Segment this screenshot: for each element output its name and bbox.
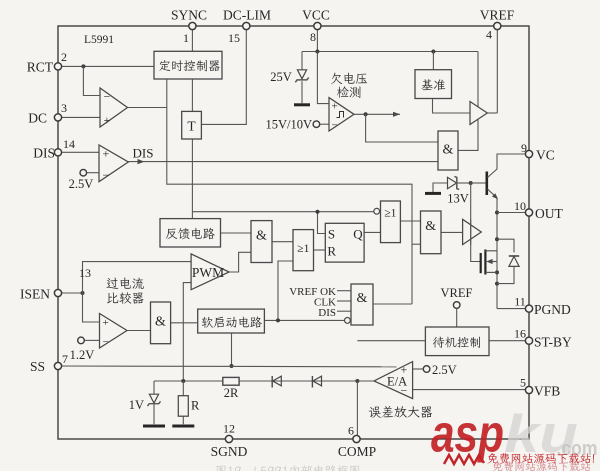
pin label ISEN [20, 287, 50, 302]
wire VCC pin8 down [316, 26, 318, 52]
node pin15 DC-LIM [243, 22, 250, 29]
svg-text:&: & [357, 291, 368, 306]
junction OUT node [495, 211, 499, 215]
pin number 12 [223, 422, 235, 436]
svg-text:−: − [332, 120, 338, 132]
label A5 [357, 291, 368, 306]
node pin4 VREF [494, 22, 501, 29]
svg-text:&: & [425, 219, 436, 234]
svg-text:2.5V: 2.5V [69, 177, 94, 191]
svg-text:+: + [103, 147, 110, 161]
pin number 8 [310, 30, 316, 44]
svg-text:DIS: DIS [33, 146, 55, 161]
latch U2 SR [325, 223, 364, 262]
svg-text:5: 5 [520, 376, 526, 390]
svg-text:+: + [104, 113, 111, 127]
svg-text:−: − [104, 90, 111, 104]
junction VCC above reference [431, 50, 435, 54]
op-amp U15 error amplifier EA [374, 362, 413, 399]
block U7 standby control [425, 327, 489, 356]
wire VCC rail [302, 51, 478, 53]
svg-text:T: T [187, 119, 196, 134]
label CLK [314, 297, 336, 309]
block U6 softstart circuit [198, 309, 265, 333]
node pin3 DC [54, 114, 61, 121]
wire reference block to buffer input [433, 99, 471, 114]
svg-text:ISEN: ISEN [20, 287, 50, 302]
junction S rail [316, 210, 320, 214]
wire ISEN pin13 line [58, 292, 83, 294]
wire VCC rail into reference block [432, 52, 434, 70]
junction RCT line [81, 64, 85, 68]
svg-text:≥1: ≥1 [384, 208, 396, 220]
node 15V/10V terminal [313, 121, 320, 128]
node pin6 COMP [353, 435, 360, 442]
node pin8 VCC [314, 22, 321, 29]
wire ISEN rail up to PWM input [83, 262, 192, 293]
pin label DIS [33, 146, 55, 161]
svg-text:E/A: E/A [387, 375, 407, 389]
pin label SYNC [171, 8, 207, 23]
gate O1 OR [293, 230, 314, 271]
junction driver node [469, 181, 473, 185]
svg-text:13: 13 [79, 266, 91, 280]
svg-text:≥1: ≥1 [297, 243, 309, 255]
label A3 [443, 143, 454, 158]
svg-text:11: 11 [514, 295, 526, 309]
transistor Q1 collector [488, 154, 530, 178]
svg-text:15V/10V: 15V/10V [265, 118, 312, 132]
transistor Q1 npn base bar [485, 172, 488, 196]
wire DIS label stub [337, 310, 351, 312]
zener D3 25V [295, 70, 308, 83]
svg-text:8: 8 [310, 30, 316, 44]
pin number 5 [520, 376, 526, 390]
label 2.5V at DIS [69, 177, 94, 191]
zener D4 1V [148, 394, 161, 406]
wire EA apex node to COMP pin6 [356, 381, 358, 439]
node pin7 SS [54, 362, 61, 369]
svg-text:R: R [191, 399, 200, 413]
block U3 timing controller [154, 51, 222, 79]
label O1 [297, 243, 309, 255]
label 2.5V at EA [432, 363, 457, 377]
resistor R [178, 396, 188, 417]
op-amp U9 DIS comparator [99, 145, 128, 182]
node pin5 VFB [525, 386, 532, 393]
svg-text:10: 10 [514, 199, 526, 213]
label A4 [155, 315, 166, 330]
pin label RCT [27, 60, 54, 75]
wire PWM output to AND [229, 252, 251, 272]
label softstart circuit [202, 316, 262, 327]
wire softstart output rail [264, 319, 344, 321]
svg-text:1.2V: 1.2V [70, 348, 95, 362]
wire RCT pin2 to timing controller [58, 65, 154, 67]
svg-text:2.5V: 2.5V [432, 363, 457, 377]
wire 25V zener top [301, 52, 303, 70]
gate A5 standby AND with bubble [345, 284, 374, 325]
block T [182, 111, 202, 139]
caption bottom [217, 465, 360, 471]
block U4 reference [415, 70, 452, 99]
wire VCC rail down to buffer top [477, 52, 479, 107]
junction diode top [495, 237, 499, 241]
wire latch Q to NOR gate [364, 231, 380, 233]
op-amp U8 RCT comparator [100, 88, 128, 127]
wire DIS signal rail [128, 161, 438, 163]
pin number 13 [79, 266, 91, 280]
label overcurrent line1 [107, 278, 144, 289]
wire to PGND pin11 [497, 308, 529, 310]
pin label SGND [211, 444, 248, 459]
ground bar at 1V zener [143, 425, 165, 428]
pin label DC-LIM [223, 8, 271, 23]
label A2 [425, 219, 436, 234]
label L5991 [84, 34, 114, 46]
zener D2 13V [448, 176, 460, 189]
label overcurrent line2 [107, 292, 144, 303]
svg-text:&: & [155, 315, 166, 330]
label 2R [224, 386, 239, 400]
node pin13 ISEN [54, 289, 61, 296]
wire compensation rail with diodes [154, 380, 357, 382]
pin number 4 [486, 28, 492, 42]
node pin2 RCT [54, 63, 61, 70]
wire clock rail [167, 79, 412, 304]
wire RCT comparator output to clock rail [128, 107, 167, 109]
svg-text:+: + [103, 317, 109, 329]
svg-text:DIS: DIS [318, 307, 336, 319]
label VREF terminal [441, 286, 473, 300]
pin label VREF [480, 8, 515, 23]
junction diode bottom [495, 282, 499, 286]
svg-text:DC-LIM: DC-LIM [223, 8, 271, 23]
wire DIS pin14 to comparator plus input [58, 151, 99, 153]
wire 1V zener to ground [153, 404, 155, 425]
wire DC pin3 to comparator plus input [58, 116, 100, 118]
node VREF terminal [453, 302, 460, 309]
wire VREFOK label stub [337, 290, 351, 292]
junction UVLO output [364, 112, 368, 116]
wire overcurrent comparator to AND [127, 330, 151, 332]
wire driver node to transistor base [471, 182, 486, 184]
svg-text:14: 14 [63, 137, 75, 151]
svg-text:S: S [328, 226, 335, 241]
wire UVLO output with arrow [354, 113, 400, 115]
svg-text:PGND: PGND [534, 302, 571, 317]
wire EA minus input to VFB pin5 [413, 389, 529, 391]
pin number 9 [521, 141, 527, 155]
pin label VC [536, 148, 555, 163]
wire R resistor to ground [182, 416, 184, 424]
svg-text:Q: Q [353, 226, 363, 241]
gate A3 uvlo AND [438, 131, 458, 170]
label 15V/10V [265, 118, 312, 132]
svg-text:OUT: OUT [535, 206, 563, 221]
wire buffer output to VREF pin4 drop [487, 112, 497, 114]
label reference [421, 79, 445, 90]
pin number 6 [348, 424, 354, 438]
node pin14 DIS [54, 149, 61, 156]
label standby control [433, 337, 480, 348]
wire 15V/10V terminal to UVLO minus input [320, 123, 329, 125]
transistor Q1 emitter with arrow [488, 189, 499, 199]
wire output AND to driver [441, 231, 463, 233]
svg-text:VC: VC [536, 148, 555, 163]
wire emitter down to PGND corner [496, 198, 498, 309]
svg-text:ST-BY: ST-BY [534, 335, 572, 350]
arrow on DIS rail [138, 159, 145, 164]
wire 2.5V terminal to DIS comparator minus input [87, 172, 100, 174]
svg-text:7: 7 [62, 352, 68, 366]
op-amp U10 UVLO comparator with hysteresis [329, 98, 354, 132]
wire feedback box to AND [221, 232, 252, 234]
label DIS signal [133, 146, 154, 161]
wire standby control to ST-BY pin16 [489, 340, 529, 342]
pin number 15 [228, 31, 240, 45]
arrow on UVLO output [393, 112, 400, 117]
wire AND to softstart box [171, 322, 198, 324]
svg-text:VREF: VREF [480, 8, 515, 23]
svg-text:15: 15 [228, 31, 240, 45]
wire VREF terminal to standby control [456, 308, 458, 327]
wire VCC to UVLO comparator plus input [317, 52, 329, 104]
IC boundary box [58, 26, 529, 439]
pin label VFB [534, 384, 560, 399]
diode D1 freewheeling [497, 239, 519, 283]
svg-text:+: + [332, 101, 338, 113]
resistor 2R [223, 377, 239, 385]
svg-text:3: 3 [61, 101, 67, 115]
label O2 [384, 208, 396, 220]
wire EA plus input to 2.5V terminal [413, 368, 424, 370]
wire EA node up to standby control [357, 340, 425, 342]
pin number 2 [61, 50, 67, 64]
svg-text:&: & [443, 143, 454, 158]
watermark red ghost [493, 461, 591, 471]
wire T block down to feedback box [191, 139, 193, 219]
svg-text:9: 9 [521, 141, 527, 155]
wire AND gate to buffer enable [458, 119, 478, 150]
svg-text:L5991: L5991 [84, 34, 114, 46]
pin number 7 [62, 352, 68, 366]
watermark aspku logo [431, 405, 598, 465]
pin number 16 [514, 327, 526, 341]
label VREF OK [289, 286, 336, 298]
node 1.2V terminal [78, 337, 85, 344]
pin label PGND [534, 302, 571, 317]
svg-text:2: 2 [61, 50, 67, 64]
node pin10 OUT [525, 209, 532, 216]
node pin11 PGND [525, 305, 532, 312]
diode D6 [312, 376, 321, 388]
gate A4 overcurrent AND [151, 302, 171, 344]
label S [328, 226, 335, 241]
wire softstart rail to OR gate second input [278, 261, 293, 320]
svg-text:4: 4 [486, 28, 492, 42]
wire DC-LIM pin15 down to T block [201, 26, 246, 124]
pin number 3 [61, 101, 67, 115]
wire 13V zener to driver node [457, 182, 471, 184]
svg-text:VCC: VCC [302, 8, 330, 23]
wire OR gate to latch R input [314, 249, 326, 251]
label DIS input [318, 307, 336, 319]
svg-text:−: − [103, 168, 110, 182]
wire timing controller to T block [191, 79, 193, 111]
wire 1V zener top [153, 381, 155, 394]
label 25V [270, 70, 292, 84]
junction divider node [181, 379, 185, 383]
label A1 [256, 229, 267, 244]
svg-text:PWM: PWM [192, 265, 224, 280]
pin label DC [28, 111, 47, 126]
svg-text:VFB: VFB [534, 384, 560, 399]
node pin9 VC [525, 150, 532, 157]
ground bar at 13V zener [425, 192, 441, 195]
op-amp U14 driver buffer [463, 219, 482, 244]
node 2.5V terminal at EA [423, 366, 430, 373]
label 1.2V [70, 348, 95, 362]
svg-text:SGND: SGND [211, 444, 248, 459]
transistor M1 mosfet [481, 250, 497, 275]
gate A2 output AND [421, 211, 442, 254]
wire 13V zener anode to ground [433, 183, 448, 192]
label 1V [129, 398, 144, 412]
block U5 feedback circuit [160, 219, 221, 247]
wire RCT branch to comparator minus input [83, 66, 100, 95]
svg-text:.com: .com [557, 438, 598, 460]
junction ISEN [81, 291, 85, 295]
svg-text:13V: 13V [447, 192, 469, 206]
svg-text:25V: 25V [270, 70, 292, 84]
diode D5 [272, 376, 281, 388]
svg-text:VREF: VREF [441, 286, 473, 300]
junction SS line [230, 364, 234, 368]
svg-text:SYNC: SYNC [171, 8, 207, 23]
gate A1 AND [251, 221, 272, 263]
wire standby AND output to clock rail [373, 303, 412, 305]
svg-text:1V: 1V [129, 398, 144, 412]
pin label ST-BY [534, 335, 572, 350]
svg-text:DC: DC [28, 111, 47, 126]
wire SYNC pin1 to timing controller [191, 26, 193, 51]
svg-text:12: 12 [223, 422, 235, 436]
svg-text:&: & [256, 229, 267, 244]
junction EA apex node [355, 379, 359, 383]
junction softstart rail [276, 318, 280, 322]
label error amplifier [369, 406, 432, 418]
pin label OUT [535, 206, 563, 221]
wire 1.2V terminal to overcurrent comparator minus [84, 339, 99, 341]
pin label COMP [338, 444, 376, 459]
svg-text:2R: 2R [224, 386, 239, 400]
pin number 11 [514, 295, 526, 309]
wire S rail branch to latch S input [318, 212, 326, 234]
wire ISEN down to overcurrent comparator plus [83, 293, 100, 322]
wire PWM second input down to divider node [183, 283, 191, 381]
pin number 10 [514, 199, 526, 213]
wire UVLO output down to AND gate [366, 114, 438, 142]
svg-text:16: 16 [514, 327, 526, 341]
wire CLK label stub [337, 300, 351, 302]
label feedback circuit [166, 228, 215, 239]
svg-text:DIS: DIS [133, 146, 154, 161]
wire AND to OR gate [272, 241, 293, 243]
watermark red zigzag [444, 455, 484, 464]
label R [191, 399, 200, 413]
wire clock rail stub to output AND gate [412, 243, 421, 245]
svg-text:SS: SS [30, 359, 45, 374]
svg-text:RCT: RCT [27, 60, 54, 75]
wire S rail to NOR bubble [192, 211, 373, 213]
gate O2 NOR with bubble [374, 201, 401, 243]
svg-text:1: 1 [183, 31, 189, 45]
watermark red text [488, 453, 594, 464]
label T [187, 119, 196, 134]
label R [327, 243, 336, 258]
svg-text:−: − [103, 336, 109, 348]
svg-text:6: 6 [348, 424, 354, 438]
wire R resistor top [182, 381, 184, 396]
node pin16 ST-BY [525, 337, 532, 344]
label uvlo detect line1 [331, 73, 367, 84]
junction VCC at pin8 drop [315, 50, 319, 54]
wire softstart box down to SS line [231, 333, 233, 366]
label timing controller [159, 60, 219, 71]
label PWM [192, 265, 224, 280]
label 13V [447, 192, 469, 206]
wire EA apex line [357, 380, 374, 382]
op-amp U13 overcurrent comparator [100, 314, 128, 349]
node pin12 SGND [225, 435, 232, 442]
ground bar at R [172, 425, 194, 428]
wire 25V zener to ground [301, 81, 303, 103]
op-amp U11 reference buffer [470, 102, 487, 125]
label Q [353, 226, 363, 241]
wire OUT node to OUT pin10 [497, 212, 529, 214]
label uvlo detect line2 [337, 86, 361, 97]
svg-text:R: R [327, 243, 336, 258]
pin number 1 [183, 31, 189, 45]
pin number 14 [63, 137, 75, 151]
wire SS pin7 line to error amplifier [58, 365, 397, 368]
node 2.5V terminal at DIS comparator [80, 169, 87, 176]
node pin1 SYNC [189, 22, 196, 29]
svg-text:COMP: COMP [338, 444, 376, 459]
wire VREF pin4 down [496, 26, 498, 113]
pin label SS [30, 359, 45, 374]
driver line through triangle [470, 219, 472, 244]
wire driver vertical to MOSFET gate [471, 183, 481, 262]
op-amp U12 PWM comparator [191, 254, 229, 290]
pin label VCC [302, 8, 330, 23]
wire NOR gate to output AND [400, 220, 420, 222]
junction MOSFET source [495, 270, 499, 274]
ground bar at 25V zener [294, 103, 310, 106]
